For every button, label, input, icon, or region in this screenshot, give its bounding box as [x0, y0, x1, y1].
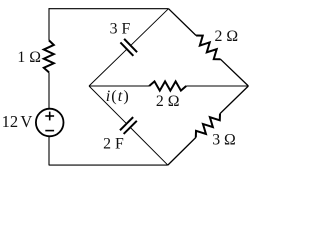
svg-text:1 Ω: 1 Ω — [17, 49, 41, 66]
svg-text:2 F: 2 F — [103, 136, 124, 153]
svg-text:3 F: 3 F — [110, 21, 131, 38]
svg-text:i(t): i(t) — [106, 87, 130, 105]
svg-text:2 Ω: 2 Ω — [215, 28, 239, 45]
svg-text:3 Ω: 3 Ω — [212, 132, 236, 149]
svg-text:12V: 12V — [2, 112, 33, 131]
svg-text:2 Ω: 2 Ω — [156, 93, 180, 110]
